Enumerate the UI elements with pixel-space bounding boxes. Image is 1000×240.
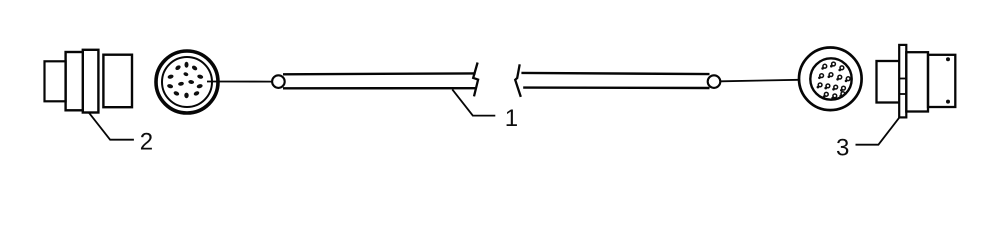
svg-text:3: 3 [836, 135, 849, 162]
cable 1 right segment bottom line [523, 86, 709, 89]
connector P3 side view: front shell rect [928, 55, 955, 107]
connector P2 face pins [167, 62, 204, 98]
connector P2 side view: knurled band rect [83, 50, 99, 113]
cable ferrule right circle [708, 75, 721, 88]
wire from ferrule to P3 face [721, 80, 799, 82]
wire from P2 face to ferrule [207, 81, 272, 83]
cable 1 left segment top line [283, 72, 476, 75]
connector P3 face socket pins [817, 62, 850, 99]
connector P2 side view: coupling ring rect [66, 52, 98, 110]
break symbol right [515, 64, 521, 97]
leader line to label 3 [856, 118, 900, 145]
leader line to label 1 [452, 89, 495, 115]
flange tick lower [899, 93, 906, 95]
connector P2 side view: rear shell rect [45, 61, 66, 101]
cable ferrule left circle [272, 75, 285, 88]
leader line to label 2 [89, 113, 134, 140]
connector P2 face view: outer circle [156, 51, 218, 113]
connector P3 face view: inner circle [810, 58, 851, 99]
cable 1 left segment bottom line [283, 87, 476, 90]
connector P3 side view: body rect [906, 52, 928, 111]
flange tick upper [899, 78, 906, 80]
break symbol left [473, 63, 478, 97]
front shell screw dot top [946, 57, 950, 61]
svg-text:1: 1 [505, 105, 518, 132]
connector P3 face view: outer circle [799, 48, 862, 111]
svg-text:2: 2 [140, 129, 153, 156]
cable 1 right segment top line [521, 73, 709, 74]
front shell screw dot bottom [946, 100, 950, 104]
connector P2 face view: inner ring circle [162, 57, 212, 107]
connector P3 side view: rear rect [877, 61, 900, 103]
connector P3 side view: mounting flange rect [899, 45, 906, 118]
connector P2 side view: front shell rect [103, 55, 132, 107]
